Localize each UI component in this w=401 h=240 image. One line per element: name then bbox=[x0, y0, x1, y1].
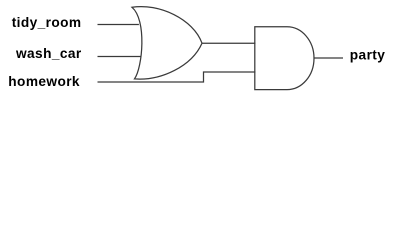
wire wash_car to OR input 2 bbox=[98, 56, 141, 58]
svg-text:tidy_room: tidy_room bbox=[12, 15, 82, 30]
wire AND output to party bbox=[314, 57, 343, 59]
svg-text:wash_car: wash_car bbox=[15, 46, 82, 61]
AND gate (OR-result AND homework) bbox=[255, 27, 314, 90]
wire homework to AND input 2 (with step) bbox=[98, 72, 256, 82]
wire OR output to AND input 1 bbox=[202, 42, 256, 44]
svg-text:party: party bbox=[350, 47, 385, 62]
svg-text:homework: homework bbox=[8, 74, 80, 89]
wire tidy_room to OR input 1 bbox=[98, 24, 139, 26]
OR gate (tidy_room OR wash_car) bbox=[132, 7, 202, 80]
